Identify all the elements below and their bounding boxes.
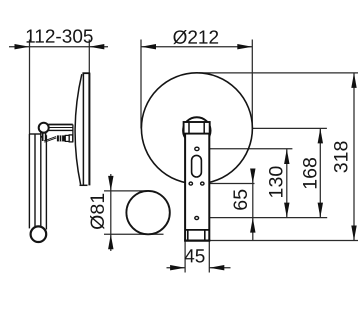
svg-text:65: 65 <box>230 189 252 211</box>
svg-text:130: 130 <box>266 166 288 199</box>
svg-text:Ø81: Ø81 <box>87 193 109 230</box>
svg-text:112-305: 112-305 <box>25 27 93 48</box>
svg-text:318: 318 <box>331 140 353 173</box>
svg-text:Ø212: Ø212 <box>173 28 219 49</box>
svg-text:45: 45 <box>184 246 205 267</box>
svg-text:168: 168 <box>300 157 322 190</box>
